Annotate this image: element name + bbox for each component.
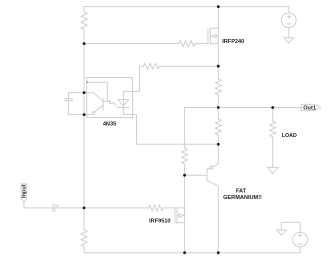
svg-text:IRFP240: IRFP240: [222, 39, 244, 45]
svg-text:Out1: Out1: [303, 106, 316, 112]
svg-text:Input: Input: [21, 184, 27, 198]
svg-text:IRF9510: IRF9510: [149, 219, 170, 225]
svg-text:FAT: FAT: [236, 188, 247, 194]
svg-text:GERMANIUM!!: GERMANIUM!!: [223, 195, 262, 201]
svg-text:LOAD: LOAD: [282, 133, 297, 139]
svg-text:4N35: 4N35: [103, 122, 116, 128]
